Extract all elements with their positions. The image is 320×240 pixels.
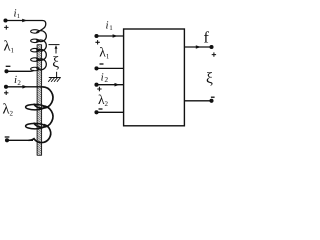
minus sign above t4 (right fig) (99, 108, 103, 110)
svg-text:2: 2 (17, 79, 21, 87)
svg-text:i: i (101, 72, 104, 84)
wire: third terminal to coil 2 (6, 86, 42, 88)
svg-text:1: 1 (17, 13, 20, 20)
minus sign above t2 (right fig) (100, 63, 104, 65)
plus t3 (97, 87, 101, 91)
node dot t3 (94, 83, 98, 87)
node: second terminal dot (4, 69, 8, 73)
wire: f terminal (185, 46, 212, 48)
coil 1 crossing ellipses (31, 30, 40, 34)
displacement marker: top reference bar (49, 44, 60, 46)
svg-text:λ2: λ2 (3, 102, 14, 118)
node: fourth terminal dot (5, 138, 9, 142)
wire: xi terminal (185, 100, 212, 102)
node dot t2 (94, 66, 98, 70)
wire: top terminal to coil 1 (6, 21, 46, 32)
node dot xi (209, 99, 213, 103)
wire: terminal 1 (97, 35, 125, 37)
wire: terminal 2 (97, 67, 125, 69)
wire: coil2 bottom to fourth terminal (7, 139, 33, 141)
wire: terminal 3 (97, 84, 125, 86)
arrow f (196, 45, 201, 49)
node dot t1 (94, 34, 98, 38)
plus t1 (95, 40, 99, 44)
plus f (212, 52, 216, 56)
current arrow i1 (left) (22, 19, 27, 23)
svg-text:λ1: λ1 (4, 39, 15, 55)
coil 2 crossing ellipses (26, 104, 45, 110)
minus above xi dot (211, 96, 215, 98)
node: third terminal dot (4, 85, 8, 89)
svg-text:ξ: ξ (206, 70, 213, 87)
svg-text:λ2: λ2 (98, 92, 109, 108)
plus top-left (4, 25, 8, 29)
svg-text:f: f (204, 29, 210, 46)
minus sign (coil1 bottom, left fig) (6, 65, 11, 67)
plus mid-left (4, 91, 8, 95)
wire: coil1 bottom to second terminal (7, 70, 34, 71)
connector line below xi (56, 72, 58, 78)
node: top-left terminal dot (3, 18, 7, 22)
svg-text:λ1: λ1 (99, 45, 110, 61)
ground reference hatch (49, 77, 61, 79)
node dot t4 (94, 110, 98, 114)
arrow i1 (right fig) (113, 34, 118, 38)
node dot f (209, 45, 213, 49)
coil 2 turns (big arcs) (34, 87, 53, 108)
svg-text:i: i (106, 20, 109, 32)
core plunger (hatched bar) (37, 45, 42, 156)
svg-text:2: 2 (104, 75, 108, 84)
wire: terminal 4 (97, 111, 125, 113)
svg-text:1: 1 (109, 24, 113, 32)
arrow i2 (right fig) (115, 83, 120, 87)
coil 1 turns (arcs) (36, 31, 46, 42)
svg-text:ξ: ξ (52, 54, 59, 71)
coupling network box (124, 29, 185, 126)
minus sign (coil2 bottom, left fig) (5, 136, 10, 138)
current arrow i2 (left) (22, 85, 27, 89)
displacement arrow (up) (55, 48, 57, 54)
